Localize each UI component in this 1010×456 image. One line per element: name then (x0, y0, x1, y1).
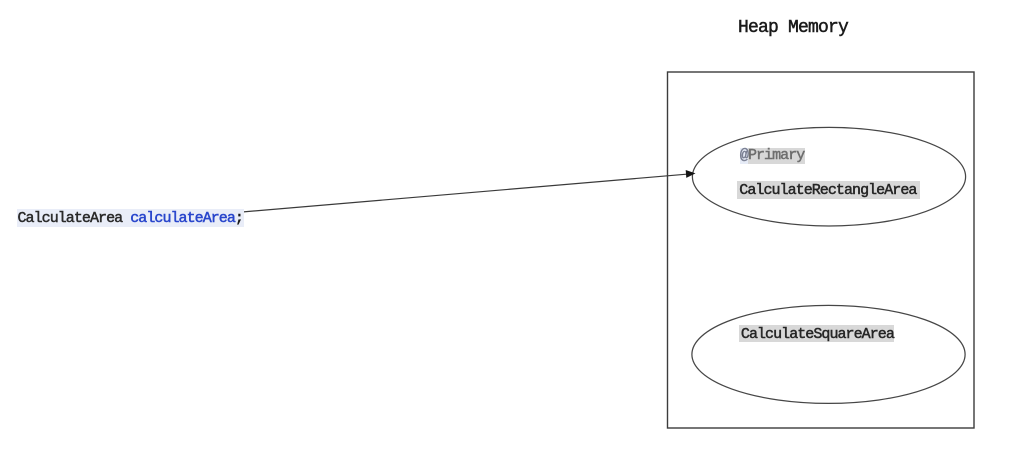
ellipse CalculateSquareArea (692, 305, 965, 403)
label CalculateSquareArea (741, 326, 894, 344)
highlight: CalculateRectangleArea (737, 181, 920, 200)
heap memory box (668, 72, 975, 428)
highlight: CalculateSquareArea (739, 325, 894, 342)
ellipse CalculateRectangleArea (692, 127, 965, 226)
highlight: Primary (748, 148, 805, 164)
label @Primary (740, 147, 804, 165)
label CalculateRectangleArea (739, 182, 916, 200)
arrowhead (686, 170, 696, 178)
highlight: code line left (17, 209, 244, 227)
highlight: @ cell (740, 148, 748, 164)
arrow wire (242, 174, 687, 212)
title Heap Memory (738, 16, 848, 40)
code line: CalculateArea calculateArea; (18, 210, 243, 228)
